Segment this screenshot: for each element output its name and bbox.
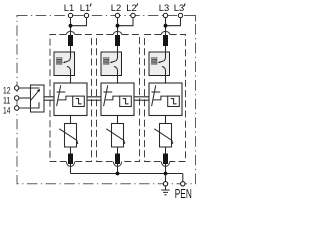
- svg-text:L1: L1: [80, 2, 90, 13]
- terminal L1: [68, 13, 72, 17]
- module 1 border: [50, 31, 92, 166]
- terminal L3: [163, 13, 167, 17]
- terminal 14: [15, 106, 19, 110]
- ground: [161, 186, 169, 195]
- contact box: [31, 85, 45, 112]
- wire L3' branch: [166, 18, 181, 26]
- terminal L3': [178, 13, 182, 17]
- svg-text:L3: L3: [159, 2, 169, 13]
- terminal L2: [115, 13, 119, 17]
- wire 14 to NO contact: [19, 102, 39, 108]
- border corner segment top-right: [184, 16, 196, 22]
- terminal 12: [15, 86, 19, 90]
- svg-text:12: 12: [3, 85, 10, 95]
- node module 2 junction: [116, 172, 120, 176]
- wire L2' branch: [118, 18, 134, 26]
- svg-text:11: 11: [3, 95, 10, 105]
- wire L1 drop: [70, 18, 72, 36]
- terminal PEN out: [181, 182, 185, 186]
- mechanical linkage FM to module 1: [44, 97, 54, 100]
- node L1 junction: [69, 24, 73, 28]
- wire L3 drop: [165, 18, 167, 36]
- svg-text:L2: L2: [126, 2, 136, 13]
- mechanical linkage module 1 to module 2: [87, 97, 101, 100]
- wire to PEN right terminal: [182, 174, 184, 182]
- node module 3 junction: [164, 172, 168, 176]
- module 3 border: [145, 31, 186, 166]
- node L2 junction: [116, 24, 120, 28]
- wire L2 drop: [117, 18, 119, 36]
- svg-text:PEN: PEN: [175, 187, 192, 200]
- terminal L2': [131, 13, 135, 17]
- svg-text:L1: L1: [64, 2, 74, 13]
- svg-text:14: 14: [3, 105, 10, 115]
- bus wire: [71, 173, 183, 175]
- svg-text:L3: L3: [174, 2, 184, 13]
- wire to PEN ground terminal: [165, 174, 167, 182]
- wire L1' branch: [71, 18, 87, 26]
- border frame: [17, 16, 196, 184]
- svg-text:L2: L2: [111, 2, 121, 13]
- mechanical linkage module 2 to module 3: [134, 97, 149, 100]
- changeover blade: [31, 91, 39, 100]
- terminal PEN ground: [163, 182, 167, 186]
- wire 11 common: [19, 97, 31, 99]
- node L3 junction: [164, 24, 168, 28]
- wire 12 to NC contact: [19, 87, 40, 89]
- module 2 border: [97, 31, 140, 166]
- terminal 11: [15, 96, 19, 100]
- terminal L1': [84, 13, 88, 17]
